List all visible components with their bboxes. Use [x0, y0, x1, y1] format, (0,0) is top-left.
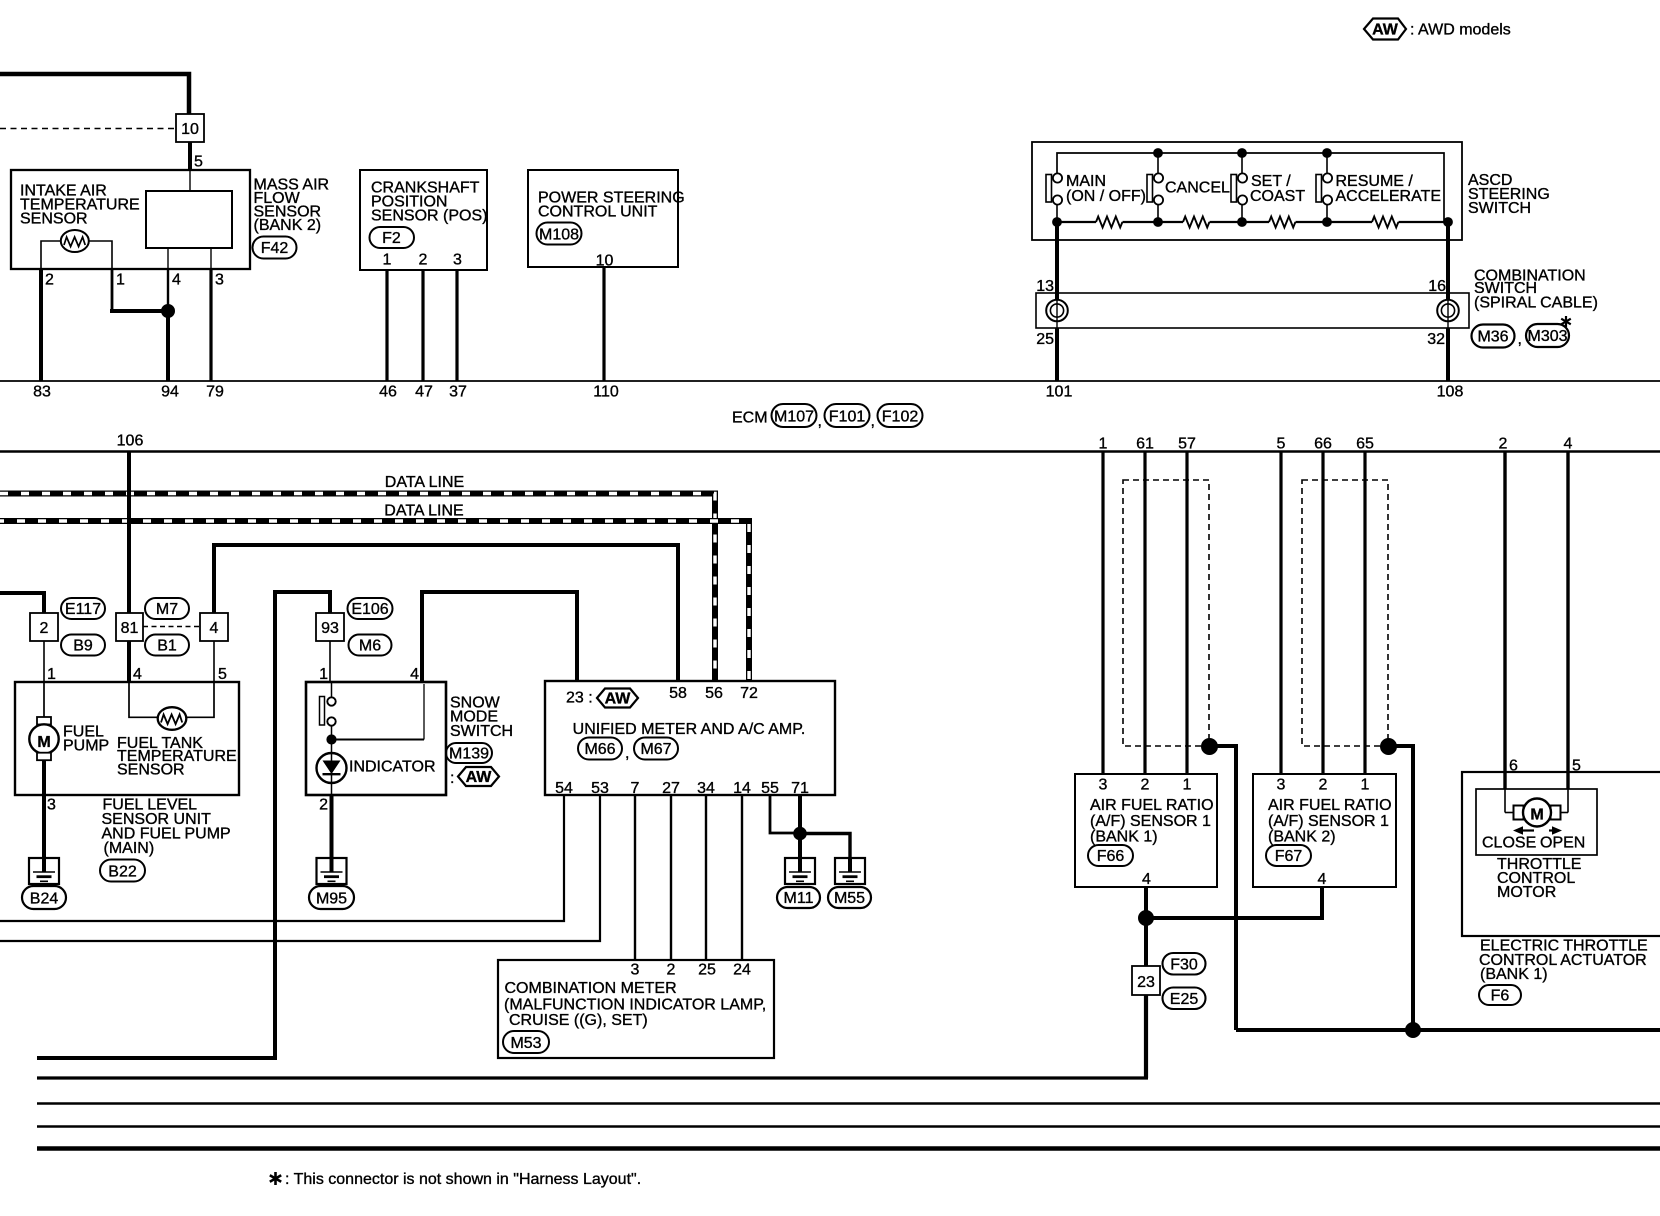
ASCD top rail [1057, 153, 1444, 222]
wire: fuel pump pin 3 to ground B24 [44, 795, 56, 858]
svg-text:2: 2 [667, 962, 676, 979]
ASCD steering switch outer box [1032, 142, 1550, 240]
wire: ECM 4 to throttle motor pin 5 [1560, 452, 1581, 813]
wire: meter pin 71 to ground M11 [798, 795, 802, 858]
unified meter top pin labels 58 56 72 [669, 685, 758, 702]
snow mode pin 4 label [410, 666, 419, 683]
wire: feeder to connector box 2 [0, 593, 44, 613]
svg-text:M67: M67 [640, 741, 671, 758]
MAF pin labels 2 1 4 3 [45, 272, 224, 289]
svg-text:M108: M108 [539, 227, 579, 244]
bottom run line 1 (shield drains) [1236, 1028, 1660, 1032]
svg-text:2: 2 [45, 272, 54, 289]
connectors M36 , M303 with asterisk [1472, 316, 1571, 348]
svg-text:1: 1 [383, 252, 392, 269]
wire: snow switch internal link to pin 4 [332, 684, 425, 740]
svg-text:M66: M66 [584, 741, 615, 758]
svg-text:CANCEL: CANCEL [1165, 180, 1230, 197]
wire: meter pin 27 to combination meter pin 2 [670, 795, 672, 960]
close/open arrows [1482, 826, 1585, 851]
wire: branch to ground M55 [800, 834, 850, 859]
MASS AIR FLOW SENSOR (BANK 2) label and connector F42 [253, 177, 330, 259]
ground symbol B24 [22, 858, 66, 909]
wire: meter pin 53 run to left edge [0, 795, 600, 941]
connector M139 [446, 743, 492, 763]
svg-text:(BANK 1): (BANK 1) [1480, 966, 1548, 983]
svg-text:(A/F) SENSOR 1: (A/F) SENSOR 1 [1090, 813, 1211, 830]
wire: thick link box 93 to lower-left run [37, 592, 330, 1058]
ECM terminal label 110 [593, 384, 619, 401]
wire: B1 shield drain to bottom run [1209, 746, 1236, 1030]
wire: box 10 to mass air flow sensor pin 5 [190, 142, 203, 191]
svg-text:3: 3 [47, 797, 56, 814]
wire: ECM 65 to A/F sensor B2 pin 1 [1363, 452, 1366, 775]
svg-text:SWITCH: SWITCH [1468, 200, 1531, 217]
svg-text:2: 2 [1141, 777, 1150, 794]
svg-text:2: 2 [40, 620, 49, 637]
svg-text:71: 71 [791, 780, 809, 797]
power steering control unit box with connector M108 [528, 170, 685, 270]
wire: A/F B2 pin 4 jog to junction [1146, 887, 1322, 918]
wire: meter pin 14 to combination meter pin 24 [741, 795, 743, 960]
svg-text:4: 4 [1318, 871, 1327, 888]
ECM terminal labels 101 108 [1046, 384, 1464, 401]
svg-text:M303: M303 [1527, 328, 1567, 345]
fuel level sensor unit and fuel pump box [15, 682, 239, 857]
wire: ECM 57 to A/F sensor B1 pin 1 [1185, 452, 1188, 775]
wire: thick link from box 4 up and over to unified meter pin 58 [214, 545, 678, 681]
svg-text:34: 34 [697, 780, 715, 797]
svg-text:110: 110 [593, 384, 619, 401]
svg-text:(MAIN): (MAIN) [104, 840, 155, 857]
wire: thick feeder to box 10 [0, 74, 189, 114]
svg-text:MOTOR: MOTOR [1497, 884, 1556, 901]
svg-text:ACCELERATE: ACCELERATE [1336, 188, 1442, 205]
node on top rail (resume) [1323, 149, 1332, 158]
svg-text:F30: F30 [1170, 957, 1198, 974]
svg-text:57: 57 [1178, 436, 1196, 453]
svg-text:(BANK 1): (BANK 1) [1090, 829, 1158, 846]
svg-text:101: 101 [1046, 384, 1073, 401]
svg-text:E25: E25 [1170, 991, 1199, 1008]
svg-text:DATA LINE: DATA LINE [384, 502, 463, 519]
svg-text:4: 4 [133, 666, 142, 683]
air fuel ratio (A/F) sensor 1 (bank 1) box [1075, 774, 1217, 888]
svg-text:1: 1 [1099, 436, 1108, 453]
pin 23 label with AW hexagon [566, 689, 638, 708]
combination switch (spiral cable) box [1036, 268, 1598, 329]
svg-text:2: 2 [1499, 436, 1508, 453]
svg-text:83: 83 [33, 384, 51, 401]
svg-text:94: 94 [161, 384, 179, 401]
connectors M66 , M67 [578, 738, 678, 763]
svg-text:81: 81 [121, 620, 139, 637]
svg-text::: : [450, 770, 454, 787]
electric throttle control actuator box [1462, 772, 1660, 983]
node on top rail (cancel) [1154, 149, 1163, 158]
svg-text:23 :: 23 : [566, 690, 593, 707]
svg-text:INDICATOR: INDICATOR [349, 759, 436, 776]
spiral cable coil symbol right [1437, 300, 1459, 322]
svg-text:37: 37 [449, 384, 467, 401]
wire: thick link snow mode pin 4 over to unified meter pin 23 [422, 592, 577, 681]
svg-text:4: 4 [172, 272, 181, 289]
svg-text:E117: E117 [65, 601, 101, 618]
ASCD bottom rail with resistors [1057, 217, 1448, 228]
fuel pump motor M [29, 682, 109, 795]
svg-text:E106: E106 [351, 601, 388, 618]
svg-text:25: 25 [1036, 331, 1054, 348]
wire: meter pin 55 jog to ground node [770, 795, 800, 833]
junction node pin1/pin4 [162, 305, 175, 318]
svg-text:M107: M107 [774, 409, 814, 426]
ECM label with connectors M107 F101 F102 [732, 404, 923, 430]
svg-text:1: 1 [116, 272, 125, 289]
svg-text:M55: M55 [834, 890, 865, 907]
svg-text:32: 32 [1427, 331, 1445, 348]
crankshaft position sensor (POS) box with connector F2 [360, 170, 487, 270]
svg-text:47: 47 [415, 384, 433, 401]
svg-text:58: 58 [669, 685, 687, 702]
svg-text:10: 10 [181, 121, 199, 138]
svg-text:5: 5 [1277, 436, 1286, 453]
svg-text:M139: M139 [449, 746, 489, 763]
footnote asterisk [270, 1171, 641, 1188]
svg-text:AW: AW [605, 691, 632, 708]
shield drain node B2 [1381, 739, 1397, 755]
svg-text:1: 1 [1183, 777, 1192, 794]
svg-text:,: , [625, 745, 629, 762]
throttle control motor M [1514, 799, 1561, 827]
intake air temperature / mass air flow sensor outer box [11, 170, 250, 269]
wire: POS pin 2 to ECM 47 [421, 270, 424, 381]
combination meter pin labels 3 2 25 24 [631, 962, 751, 979]
svg-text:72: 72 [740, 685, 758, 702]
svg-text:AW: AW [466, 769, 493, 786]
svg-text:3: 3 [631, 962, 640, 979]
bottom run line 3 [37, 1102, 1660, 1105]
svg-text:5: 5 [194, 154, 203, 171]
svg-text:AW: AW [1372, 22, 1399, 39]
ground symbol M55 [828, 858, 871, 908]
svg-text:M6: M6 [359, 638, 381, 655]
svg-text:106: 106 [117, 433, 144, 450]
svg-text:5: 5 [218, 666, 227, 683]
ECM bus line 1 (top connector row) [0, 380, 1660, 382]
svg-text:4: 4 [1564, 436, 1573, 453]
svg-text:25: 25 [698, 962, 716, 979]
ground symbol M11 [777, 858, 820, 908]
connector box 2 with E117 / B9 [30, 598, 105, 656]
wire: junction to connector box 23 [1144, 918, 1148, 966]
svg-text:56: 56 [705, 685, 723, 702]
snow mode switch box [306, 682, 513, 795]
svg-text:SENSOR: SENSOR [117, 762, 185, 779]
connector box 23 with F30 / E25 [1132, 953, 1206, 1009]
wire: ASCD left leg to spiral cable pin 13 [1036, 222, 1057, 299]
ECM terminal labels 83 94 79 [33, 384, 224, 401]
wire: box 93 to snow mode switch pin 1 [319, 641, 330, 683]
svg-text:AIR FUEL RATIO: AIR FUEL RATIO [1268, 797, 1392, 814]
svg-text:B24: B24 [30, 891, 59, 908]
svg-text:79: 79 [206, 384, 224, 401]
svg-text:F6: F6 [1491, 988, 1510, 1005]
ECM terminal labels 46 47 37 [379, 384, 467, 401]
bottom run line 2 (to connector 23) [37, 995, 1148, 1078]
svg-text:1: 1 [47, 666, 56, 683]
indicator lamp (LED) [317, 740, 436, 796]
svg-text:4: 4 [1142, 871, 1151, 888]
wire: box 4 to fuel level sensor pin 5 [214, 641, 227, 683]
svg-text:24: 24 [733, 962, 751, 979]
svg-text:(SPIRAL CABLE): (SPIRAL CABLE) [1474, 295, 1598, 312]
svg-text:4: 4 [210, 620, 219, 637]
ECM bus line 2 (lower connector row) [0, 450, 1660, 453]
svg-text:UNIFIED METER AND A/C AMP.: UNIFIED METER AND A/C AMP. [573, 721, 806, 738]
connector box 81 with M7 / B1 [116, 598, 189, 656]
wire: meter pin 34 to combination meter pin 25 [705, 795, 707, 960]
AW hexagon marker for snow switch [450, 767, 499, 787]
svg-text:5: 5 [1572, 758, 1581, 775]
svg-text:F2: F2 [382, 230, 401, 247]
svg-text:F42: F42 [261, 240, 289, 257]
fuse box 10 [176, 114, 204, 142]
switch RESUME/ACCELERATE [1316, 153, 1441, 222]
svg-text:3: 3 [1099, 777, 1108, 794]
switch SET/COAST [1231, 153, 1305, 222]
svg-text:66: 66 [1314, 436, 1332, 453]
svg-text:M53: M53 [510, 1035, 541, 1052]
mass air flow sensor inner box [146, 191, 232, 248]
junction node pins 55/71 [794, 827, 807, 840]
air fuel ratio (A/F) sensor 1 (bank 2) box [1253, 774, 1396, 888]
wire: meter pin 7 to combination meter pin 3 [634, 795, 636, 960]
wire: box 2 to fuel level sensor pin 1 [44, 641, 56, 683]
unified meter and A/C amp box [545, 681, 835, 795]
svg-text:SWITCH: SWITCH [450, 723, 513, 740]
wire: ECM 5 to A/F sensor B2 pin 3 [1279, 452, 1282, 775]
svg-text:10: 10 [596, 253, 614, 270]
svg-text:(BANK 2): (BANK 2) [1268, 829, 1336, 846]
svg-text:2: 2 [419, 252, 428, 269]
snow mode push switch [320, 682, 336, 740]
bottom run line 4 [37, 1125, 1660, 1128]
svg-text:PUMP: PUMP [63, 738, 109, 755]
ECM terminal labels right side [1099, 436, 1573, 453]
svg-text:(BANK 2): (BANK 2) [254, 217, 322, 234]
svg-text:M: M [37, 734, 50, 751]
spiral cable coil symbol left [1046, 300, 1068, 322]
svg-text:3: 3 [1277, 777, 1286, 794]
svg-text:4: 4 [410, 666, 419, 683]
svg-text:,: , [1518, 331, 1522, 348]
connector M53 [503, 1031, 549, 1053]
wire: spiral cable pin 32 to ECM 108 [1427, 321, 1448, 381]
thermistor (intake air temperature sensing element) [41, 230, 112, 269]
wire: snow switch pin 2 to ground M95 [319, 795, 331, 858]
wire: MAF pin 1 jog to junction [110, 269, 168, 311]
wire: POS pin 3 to ECM 37 [455, 270, 458, 381]
unified meter bottom pin labels [555, 780, 809, 797]
svg-text:F66: F66 [1097, 848, 1125, 865]
svg-text:M95: M95 [316, 891, 347, 908]
svg-text:,: , [871, 413, 875, 430]
svg-text:23: 23 [1137, 974, 1155, 991]
svg-text:53: 53 [591, 780, 609, 797]
junction node in snow switch [327, 735, 336, 744]
svg-text:: This connector is not shown: : This connector is not shown in "Harnes… [285, 1171, 641, 1188]
svg-text:(ON / OFF): (ON / OFF) [1066, 188, 1146, 205]
combination meter box [498, 960, 774, 1058]
switch CANCEL [1147, 153, 1230, 222]
wire: spiral cable pin 25 to ECM 101 [1036, 321, 1057, 381]
svg-text:1: 1 [1361, 777, 1370, 794]
shield drain node B1 [1202, 739, 1218, 755]
AWD models legend hexagon AW [1364, 19, 1511, 40]
svg-text:1: 1 [319, 666, 328, 683]
svg-text:61: 61 [1136, 436, 1154, 453]
shield (dashed box) around A/F B2 signal wires [1302, 480, 1388, 746]
svg-text:108: 108 [1437, 384, 1464, 401]
svg-text:CONTROL UNIT: CONTROL UNIT [538, 203, 658, 220]
svg-text:F101: F101 [829, 409, 866, 426]
wire: MAF pin 4 to ECM 94 [167, 248, 169, 381]
svg-text:SENSOR (POS): SENSOR (POS) [371, 207, 487, 224]
ground symbol M95 [309, 858, 354, 909]
wire: ECM 106 to connector box 81 [127, 452, 131, 614]
svg-text:14: 14 [733, 780, 751, 797]
fuel tank temperature sensor thermistor [117, 682, 237, 779]
svg-text:7: 7 [631, 780, 640, 797]
svg-text:3: 3 [453, 252, 462, 269]
shield (dashed box) around A/F B1 signal wires [1123, 480, 1209, 746]
ECM terminal label 106 [117, 433, 144, 450]
svg-text:27: 27 [662, 780, 680, 797]
wire: B2 shield drain to bottom run [1388, 746, 1413, 1030]
svg-text:CLOSE: CLOSE [1482, 835, 1536, 852]
throttle control motor inner box [1476, 789, 1597, 901]
svg-text:CRUISE ((G), SET): CRUISE ((G), SET) [509, 1012, 648, 1029]
svg-text:,: , [818, 413, 822, 430]
junction node A/F pin 4 [1139, 911, 1154, 926]
svg-text:M36: M36 [1477, 329, 1508, 346]
wire: ECM 1 to A/F sensor B1 pin 3 [1101, 452, 1104, 775]
dashed link between box 81 and box 4 [143, 626, 200, 628]
svg-text:B1: B1 [157, 638, 177, 655]
svg-text:(A/F) SENSOR 1: (A/F) SENSOR 1 [1268, 813, 1389, 830]
wire: ECM 66 to A/F sensor B2 pin 2 [1321, 452, 1324, 775]
svg-text:65: 65 [1356, 436, 1374, 453]
data line 1 (dashed thick) to unified meter pin 56 [0, 474, 715, 681]
svg-text:(MALFUNCTION INDICATOR LAMP,: (MALFUNCTION INDICATOR LAMP, [504, 997, 766, 1014]
svg-text:93: 93 [321, 620, 339, 637]
connector B22 [100, 860, 145, 882]
wire: ASCD right leg to spiral cable pin 16 [1428, 222, 1448, 299]
wire: ECM 2 to throttle motor pin 6 [1505, 452, 1518, 813]
wire: MAF pin 2 to ECM 83 [39, 269, 43, 381]
svg-text:: AWD models: : AWD models [1410, 22, 1511, 39]
wire: power steering pin 10 to ECM 110 [602, 267, 605, 381]
nodes on bottom rail [1053, 218, 1453, 227]
bottom run line 5 (thick) [37, 1146, 1660, 1151]
svg-text:2: 2 [319, 797, 328, 814]
svg-text:54: 54 [555, 780, 573, 797]
connector box 4 [200, 613, 228, 641]
svg-text:B22: B22 [108, 864, 137, 881]
svg-text:COMBINATION METER: COMBINATION METER [505, 980, 677, 997]
wire: meter pin 54 run to left edge [0, 795, 564, 921]
svg-text:M7: M7 [156, 601, 178, 618]
wire: MAF pin 3 to ECM 79 [210, 248, 212, 381]
svg-text:B9: B9 [73, 638, 93, 655]
wire: dashed line into fuse box 10 [0, 128, 176, 130]
svg-text:OPEN: OPEN [1540, 835, 1585, 852]
svg-text:COAST: COAST [1250, 188, 1305, 205]
junction node on bottom run [1406, 1023, 1421, 1038]
svg-text:ECM: ECM [732, 410, 768, 427]
wire: A/F B1 pin 4 down to junction [1144, 887, 1148, 918]
svg-text:SENSOR: SENSOR [20, 211, 88, 228]
wire: box 81 to fuel level sensor pin 4 [129, 641, 142, 683]
connector F6 [1479, 985, 1521, 1005]
connector box 93 with E106 / M6 [316, 598, 393, 656]
data line 2 (dashed thick) to unified meter pin 72 [0, 502, 749, 681]
node on top rail (set/coast) [1238, 149, 1247, 158]
wire: ECM 61 to A/F sensor B1 pin 2 [1143, 452, 1146, 775]
svg-text:AIR FUEL RATIO: AIR FUEL RATIO [1090, 797, 1214, 814]
wire: POS pin 1 to ECM 46 [385, 270, 388, 381]
svg-text:M: M [1530, 807, 1543, 824]
svg-text:55: 55 [761, 780, 779, 797]
svg-text:DATA LINE: DATA LINE [385, 474, 464, 491]
svg-text:F102: F102 [882, 409, 919, 426]
svg-text:M11: M11 [784, 890, 814, 907]
svg-text:46: 46 [379, 384, 397, 401]
svg-text:2: 2 [1319, 777, 1328, 794]
svg-text:6: 6 [1509, 758, 1518, 775]
switch MAIN (ON/OFF) [1046, 173, 1146, 222]
svg-text:3: 3 [215, 272, 224, 289]
svg-text:F67: F67 [1275, 848, 1303, 865]
